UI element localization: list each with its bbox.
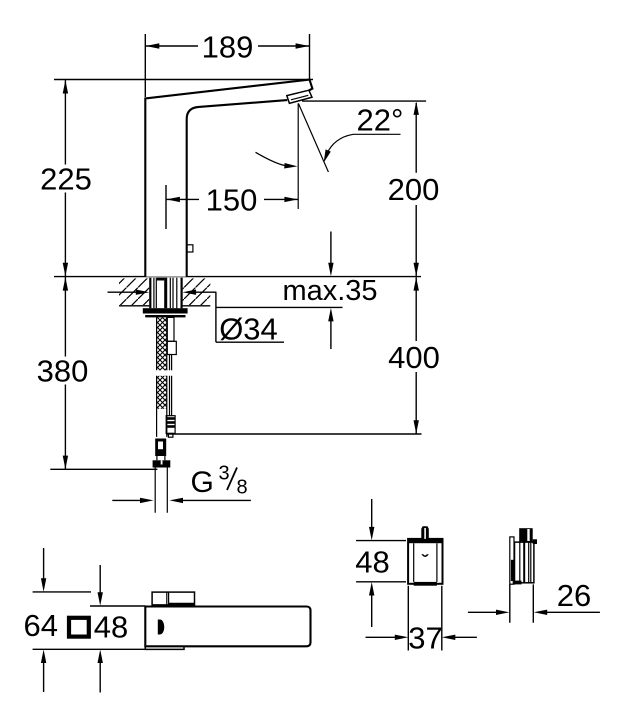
faucet front base strip xyxy=(145,646,184,649)
dim 380 xyxy=(37,277,89,469)
dim G3/8 arrows xyxy=(112,498,251,503)
dim 189 xyxy=(145,30,309,98)
svg-text:3: 3 xyxy=(219,463,230,485)
svg-text:8: 8 xyxy=(237,477,248,499)
faucet body fill xyxy=(145,80,312,277)
control box side nipple xyxy=(519,528,537,544)
ref line 380 bottom xyxy=(50,468,157,470)
cable plug xyxy=(166,416,175,437)
sensor cable lower xyxy=(170,376,172,416)
side view ext lines xyxy=(510,584,534,622)
counter top line xyxy=(54,276,421,278)
front view reference line bottom xyxy=(33,648,146,650)
dim 150 xyxy=(166,183,298,229)
dim 26 xyxy=(468,578,600,615)
control box front xyxy=(408,539,442,586)
sensor cable upper xyxy=(167,317,176,370)
svg-text:G: G xyxy=(191,466,214,499)
aerator xyxy=(287,90,312,103)
supply pipe xyxy=(155,468,167,513)
hose end fitting xyxy=(155,439,166,461)
angle arc arrow xyxy=(256,152,298,168)
control box ext lines xyxy=(408,586,442,651)
flexible hose upper xyxy=(157,317,167,370)
front view reference line 64 top xyxy=(33,591,91,593)
deck hatching left xyxy=(119,278,149,305)
svg-text:64: 64 xyxy=(24,608,58,643)
svg-text:48: 48 xyxy=(94,610,128,645)
hose nut G3/8 xyxy=(153,460,171,467)
sensor tab on body xyxy=(187,245,193,252)
svg-text:26: 26 xyxy=(557,578,591,613)
dim 48 right xyxy=(355,499,406,627)
control box side bottom band xyxy=(513,581,522,585)
dim max.35 xyxy=(282,232,377,350)
svg-text:Ø34: Ø34 xyxy=(219,311,278,346)
spray 22 deg line xyxy=(298,103,328,172)
svg-text:225: 225 xyxy=(40,161,92,196)
deck hatching right xyxy=(183,278,211,305)
dim 225 xyxy=(40,80,92,276)
flexible hose lower xyxy=(157,376,167,437)
faucet front body xyxy=(145,607,310,647)
spray vertical line xyxy=(297,103,299,209)
label D34 leader xyxy=(215,292,217,342)
mounting flange xyxy=(143,308,188,317)
sensor housing top xyxy=(152,592,194,605)
top reference line xyxy=(54,79,313,81)
ref line 400 bottom xyxy=(166,433,422,435)
deck bottom line xyxy=(119,306,343,308)
front view reference line 48 top xyxy=(90,605,145,607)
dim 200 xyxy=(388,101,440,276)
svg-text:200: 200 xyxy=(388,172,440,207)
svg-text:150: 150 xyxy=(206,183,258,218)
square symbol xyxy=(69,618,89,637)
svg-text:380: 380 xyxy=(37,354,89,389)
dim 400 xyxy=(388,277,440,434)
front view dim arrows 64 xyxy=(41,548,46,692)
shank arrows xyxy=(108,290,217,295)
dim 37 xyxy=(366,620,477,655)
label D34 xyxy=(216,311,284,346)
label G3/8 xyxy=(191,463,248,499)
control box side flange xyxy=(510,537,514,584)
control box nipple xyxy=(421,526,429,539)
faucet spout underside xyxy=(187,100,288,277)
mounting shank xyxy=(149,278,182,309)
svg-text:max.35: max.35 xyxy=(282,275,377,307)
svg-text:189: 189 xyxy=(202,30,254,65)
spray reference line xyxy=(302,100,426,102)
control box side body xyxy=(515,542,534,583)
front view dim arrows 48 xyxy=(98,565,103,693)
svg-text:37: 37 xyxy=(408,620,442,655)
label 22deg leader xyxy=(324,102,404,163)
sensor eye xyxy=(158,620,165,635)
svg-text:48: 48 xyxy=(355,545,389,580)
svg-text:22°: 22° xyxy=(357,102,404,137)
faucet outline xyxy=(145,80,312,277)
control box smile mark xyxy=(421,554,429,557)
svg-text:400: 400 xyxy=(388,340,440,375)
